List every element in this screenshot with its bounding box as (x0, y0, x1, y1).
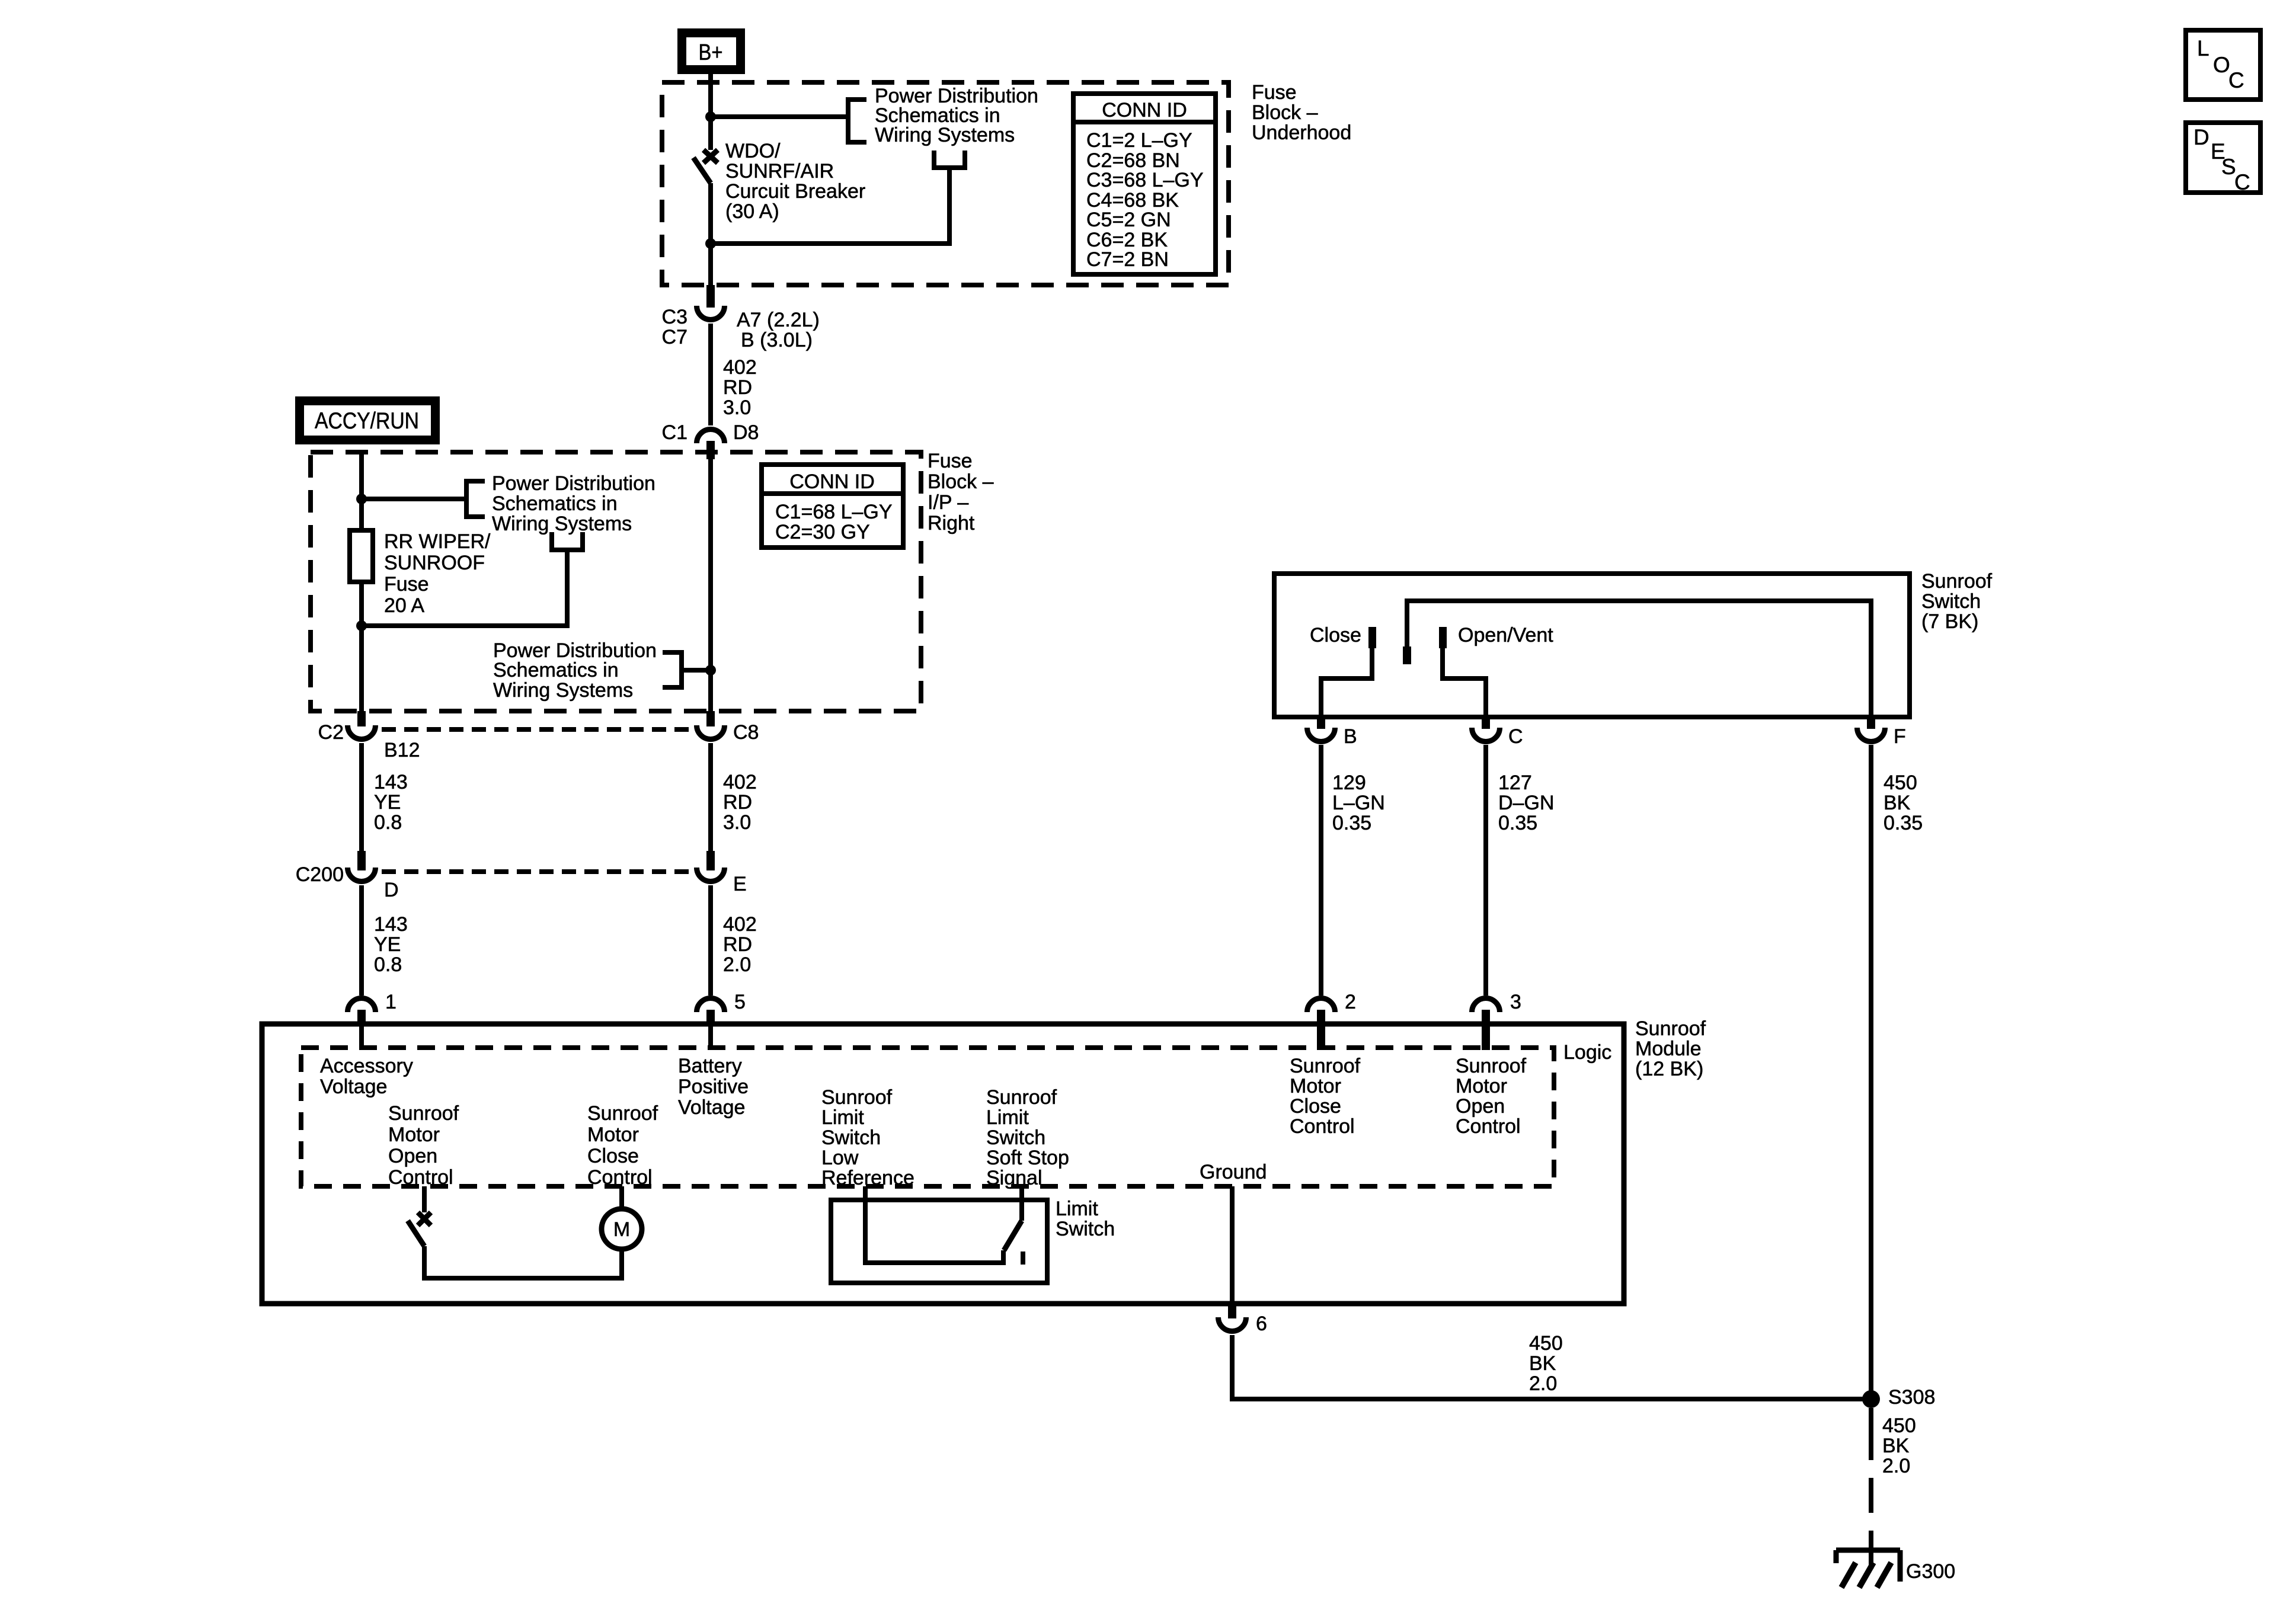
connector C2 pin stub (357, 711, 366, 726)
svg-text:20 A: 20 A (384, 594, 424, 617)
wire C down to pin 3 (1483, 745, 1488, 996)
label Power Distribution Schematics in Wiring Systems (top) (875, 85, 1038, 146)
svg-text:2.0: 2.0 (1882, 1455, 1910, 1477)
svg-text:B: B (1344, 725, 1357, 748)
connector pin 2 arc (1307, 998, 1335, 1012)
battery feed B+ terminal box (677, 28, 745, 74)
node junction on B+ wire (705, 111, 716, 122)
connector pin 1 arc (348, 998, 376, 1012)
svg-text:6: 6 (1256, 1313, 1267, 1335)
svg-text:C2=30 GY: C2=30 GY (775, 521, 870, 543)
svg-text:Close: Close (1290, 1095, 1341, 1118)
wire C2 down (359, 743, 364, 852)
limit switch blade (1004, 1221, 1022, 1250)
svg-text:RD: RD (723, 933, 752, 956)
svg-text:Open/Vent: Open/Vent (1458, 624, 1553, 646)
connector B stub (1317, 717, 1325, 729)
svg-text:D8: D8 (733, 421, 759, 444)
label Fuse Block Underhood (1252, 81, 1351, 144)
bracket under Wiring Systems text (934, 151, 965, 168)
label Fuse Block I/P Right (928, 450, 994, 534)
connector pin 6 stub (1228, 1304, 1236, 1318)
svg-text:Schematics in: Schematics in (492, 492, 618, 515)
wire bracket down to lower junction (362, 550, 567, 626)
connector C8 arc (697, 725, 725, 740)
connector pin 3 stub (1482, 1010, 1490, 1026)
sunroof motor open switch wire (422, 1186, 427, 1212)
svg-text:Signal: Signal (986, 1167, 1043, 1189)
svg-text:Sunroof: Sunroof (587, 1102, 658, 1125)
bracket under I/P upper reference text (552, 532, 583, 550)
svg-text:0.8: 0.8 (374, 953, 402, 976)
label Battery Positive Voltage (678, 1055, 749, 1119)
svg-text:I/P –: I/P – (928, 491, 968, 514)
svg-text:2.0: 2.0 (723, 953, 751, 976)
svg-text:Motor: Motor (388, 1124, 440, 1146)
svg-text:C1=68 L–GY: C1=68 L–GY (775, 501, 893, 523)
limit switch left wire (865, 1186, 1003, 1263)
logic dashed box (301, 1048, 1554, 1186)
wire E down (708, 885, 713, 996)
svg-text:402: 402 (723, 771, 757, 793)
connector C3/C7 arc (697, 306, 725, 320)
wire bracket down to junction (711, 168, 949, 244)
connector pin 6 arc (1219, 1317, 1246, 1331)
wire F down to S308 (1869, 745, 1873, 1399)
ground G300 symbol (1836, 1550, 1900, 1587)
svg-text:127: 127 (1498, 772, 1532, 794)
svg-text:RR WIPER/: RR WIPER/ (384, 530, 491, 553)
svg-text:Open: Open (1456, 1095, 1505, 1118)
svg-text:C5=2 GN: C5=2 GN (1086, 209, 1171, 231)
limit switch fixed contact tick (1021, 1251, 1025, 1265)
svg-text:Limit: Limit (1056, 1198, 1098, 1220)
svg-text:C8: C8 (733, 721, 759, 744)
svg-text:C: C (2234, 170, 2250, 194)
svg-text:Sunroof: Sunroof (1290, 1055, 1361, 1077)
svg-text:Underhood: Underhood (1252, 121, 1351, 144)
svg-text:Sunroof: Sunroof (1921, 570, 1993, 593)
svg-text:YE: YE (374, 791, 401, 814)
svg-text:(12 BK): (12 BK) (1635, 1058, 1703, 1080)
label Sunroof Motor Close Control (right) (1290, 1055, 1361, 1138)
svg-text:L–GN: L–GN (1332, 792, 1385, 814)
svg-text:Control: Control (1456, 1115, 1521, 1138)
wire label 129 L-GN 0.35 (1332, 772, 1385, 834)
Open/Vent fixed blade (1439, 627, 1447, 648)
svg-text:C2: C2 (318, 721, 344, 744)
svg-text:Fuse: Fuse (384, 573, 429, 596)
ACCY/RUN terminal box (295, 396, 440, 444)
connector B arc (1307, 728, 1335, 742)
connector F stub (1867, 717, 1875, 729)
connector C1/D8 arc (697, 430, 725, 444)
svg-text:Accessory: Accessory (320, 1055, 413, 1077)
svg-text:Close: Close (587, 1145, 639, 1167)
svg-text:(30 A): (30 A) (725, 200, 779, 223)
svg-text:Ground: Ground (1200, 1161, 1267, 1183)
svg-text:0.35: 0.35 (1498, 812, 1537, 834)
svg-text:Motor: Motor (1290, 1075, 1341, 1097)
svg-text:(7 BK): (7 BK) (1921, 610, 1978, 633)
svg-text:Low: Low (821, 1147, 859, 1169)
wire S308 down solid (1869, 1408, 1873, 1460)
svg-text:Control: Control (587, 1166, 653, 1189)
wire switch to motor (424, 1246, 622, 1278)
svg-text:Positive: Positive (678, 1076, 749, 1098)
svg-text:C1: C1 (662, 421, 687, 444)
wire label 143 YE 0.8 (second) (374, 913, 408, 976)
connector C3/C7 pin stub (706, 285, 715, 308)
Fuse Block I/P dashed box (311, 452, 921, 711)
svg-text:Module: Module (1635, 1038, 1702, 1060)
label Power Distribution Schematics in Wiring Systems (I/P lower) (493, 639, 657, 702)
wire B+ down to breaker (708, 74, 713, 150)
svg-text:L: L (2197, 36, 2209, 60)
svg-text:Wiring Systems: Wiring Systems (875, 124, 1015, 146)
dashed connector line C2 to C8 (382, 727, 692, 732)
svg-text:BK: BK (1529, 1352, 1556, 1375)
svg-text:Sunroof: Sunroof (1456, 1055, 1527, 1077)
label Sunroof Switch (7 BK) (1921, 570, 1993, 633)
wire pin2 into logic (1317, 1025, 1325, 1050)
svg-text:CONN ID: CONN ID (1102, 99, 1187, 121)
label Accessory Voltage (320, 1055, 413, 1098)
svg-text:C200: C200 (296, 863, 344, 886)
splice S308 (1862, 1390, 1880, 1408)
svg-text:C: C (2228, 68, 2244, 92)
Fuse Block Underhood dashed box (662, 82, 1229, 285)
svg-text:Voltage: Voltage (678, 1096, 745, 1119)
limit switch right wire (1019, 1186, 1024, 1221)
svg-text:Sunroof: Sunroof (986, 1086, 1057, 1109)
svg-text:C1=2 L–GY: C1=2 L–GY (1086, 129, 1192, 152)
svg-text:Switch: Switch (1056, 1218, 1115, 1240)
connector F arc (1857, 728, 1885, 742)
svg-text:Block –: Block – (1252, 101, 1318, 124)
wire Close to B (1321, 647, 1372, 717)
connector pin 5 arc (697, 998, 725, 1012)
svg-text:S308: S308 (1888, 1386, 1935, 1409)
wire Open/Vent to C (1443, 647, 1486, 717)
svg-text:Power Distribution: Power Distribution (492, 472, 655, 495)
wire label 143 YE 0.8 (374, 771, 408, 834)
limit switch box (831, 1200, 1047, 1283)
connector pin 1 stub (357, 1010, 366, 1026)
wire dashed segment 2 (1869, 1531, 1873, 1569)
svg-text:Block –: Block – (928, 470, 994, 493)
connector pin 2 stub (1317, 1010, 1325, 1026)
wire C8 down (708, 743, 713, 852)
svg-text:Motor: Motor (587, 1124, 639, 1146)
svg-text:RD: RD (723, 376, 752, 399)
svg-text:ACCY/RUN: ACCY/RUN (315, 408, 419, 434)
CONN ID table (underhood) (1073, 94, 1216, 274)
node junction main wire (705, 665, 716, 676)
label Sunroof Limit Switch Low Reference (821, 1086, 914, 1189)
svg-text:3.0: 3.0 (723, 396, 751, 419)
svg-text:Motor: Motor (1456, 1075, 1507, 1097)
svg-text:Sunroof: Sunroof (1635, 1017, 1706, 1040)
wire I/P top to fuse (359, 452, 364, 530)
wire bracket to main wire (682, 668, 711, 673)
connector pin 3 arc (1472, 998, 1500, 1012)
svg-text:SUNROOF: SUNROOF (384, 552, 485, 574)
CONN ID table (I/P) (762, 465, 903, 548)
wire C200 down (359, 885, 364, 996)
label A7 (2.2L) B (3.0L) (737, 309, 820, 351)
wire junction to bracket (362, 497, 466, 501)
node junction below fuse (356, 620, 367, 631)
svg-text:0.35: 0.35 (1884, 812, 1923, 834)
label Power Distribution Schematics in Wiring Systems (I/P upper) (492, 472, 655, 535)
svg-text:3: 3 (1510, 991, 1521, 1013)
connector E pin stub (706, 851, 715, 870)
svg-text:CONN ID: CONN ID (789, 470, 875, 493)
wire C3 to C1 (708, 324, 713, 425)
svg-text:S: S (2221, 155, 2236, 179)
wire motor up to logic (619, 1186, 624, 1209)
svg-text:C: C (1508, 725, 1523, 748)
wire label 127 D-GN 0.35 (1498, 772, 1554, 834)
svg-text:Battery: Battery (678, 1055, 742, 1077)
connector E arc (697, 868, 725, 882)
svg-text:Limit: Limit (986, 1106, 1029, 1129)
wire B down to pin 2 (1319, 745, 1323, 996)
dashed connector line C200 to E (382, 869, 692, 874)
svg-text:402: 402 (723, 356, 757, 379)
svg-text:D: D (384, 879, 399, 901)
svg-text:E: E (733, 873, 747, 895)
Close fixed blade (1368, 627, 1376, 648)
wire breaker down (708, 183, 713, 285)
svg-text:G300: G300 (1906, 1560, 1955, 1583)
svg-text:Sunroof: Sunroof (821, 1086, 893, 1109)
svg-text:Fuse: Fuse (928, 450, 973, 472)
wire label 402 RD 2.0 (723, 913, 757, 976)
svg-text:B12: B12 (384, 739, 420, 761)
svg-text:Fuse: Fuse (1252, 81, 1297, 104)
svg-text:B (3.0L): B (3.0L) (741, 329, 813, 351)
label Sunroof Motor Open Control (left) (388, 1102, 459, 1189)
label WDO/SUNRF/AIR Curcuit Breaker (30 A) (725, 140, 865, 223)
svg-text:1: 1 (385, 991, 396, 1013)
svg-text:143: 143 (374, 771, 408, 793)
svg-text:M: M (613, 1218, 630, 1241)
svg-text:BK: BK (1884, 792, 1911, 814)
svg-text:BK: BK (1882, 1435, 1910, 1457)
svg-text:B+: B+ (699, 40, 723, 65)
wire pin5 into logic (708, 1026, 713, 1048)
svg-text:Wiring Systems: Wiring Systems (492, 513, 632, 535)
svg-text:Sunroof: Sunroof (388, 1102, 459, 1125)
LOC reference box (2186, 30, 2260, 100)
svg-text:5: 5 (734, 991, 746, 1013)
connector C200 pin stub (357, 851, 366, 870)
connector C2 arc (348, 725, 376, 740)
svg-text:WDO/: WDO/ (725, 140, 781, 162)
wire fuse to junction (359, 582, 364, 711)
svg-text:A7 (2.2L): A7 (2.2L) (737, 309, 820, 331)
wire ground to pin 6 (1230, 1186, 1235, 1304)
svg-text:2.0: 2.0 (1529, 1372, 1557, 1395)
svg-text:0.35: 0.35 (1332, 812, 1371, 834)
wire label 450 BK 2.0 (horizontal run) (1529, 1332, 1563, 1395)
switch pole blade (1403, 646, 1411, 664)
svg-text:O: O (2213, 53, 2230, 77)
svg-text:0.8: 0.8 (374, 811, 402, 834)
wire pin3 into logic (1482, 1025, 1490, 1050)
wire dashed segment 1 (1869, 1478, 1873, 1513)
svg-text:3.0: 3.0 (723, 811, 751, 834)
node junction above fuse (356, 494, 367, 504)
svg-text:Soft Stop: Soft Stop (986, 1147, 1069, 1169)
switch common wire (1407, 601, 1871, 717)
connector C1/D8 pin stub (706, 441, 715, 459)
svg-text:450: 450 (1882, 1414, 1916, 1437)
label C3 C7 (662, 306, 687, 348)
label Limit Switch (1056, 1198, 1115, 1240)
svg-text:Close: Close (1310, 624, 1361, 646)
svg-text:SUNRF/AIR: SUNRF/AIR (725, 160, 834, 183)
svg-text:RD: RD (723, 791, 752, 814)
Sunroof Switch box (1274, 574, 1910, 717)
svg-text:Schematics in: Schematics in (493, 659, 619, 681)
wire pin1 into logic (359, 1026, 364, 1048)
label Sunroof Motor Close Control (left) (587, 1102, 658, 1189)
svg-text:D: D (2193, 125, 2209, 149)
wire label 402 RD 3.0 (723, 356, 757, 419)
svg-text:402: 402 (723, 913, 757, 936)
label Sunroof Motor Open Control (right) (1456, 1055, 1527, 1138)
label RR WIPER/SUNROOF Fuse 20 A (384, 530, 491, 617)
svg-text:Control: Control (1290, 1115, 1355, 1138)
connector pin 5 stub (706, 1010, 715, 1026)
svg-text:C7=2 BN: C7=2 BN (1086, 248, 1169, 271)
svg-text:C3: C3 (662, 306, 687, 328)
wire label 450 BK 2.0 (below S308) (1882, 1414, 1916, 1477)
svg-text:F: F (1894, 725, 1906, 748)
Sunroof Module box (262, 1024, 1624, 1304)
connector C stub (1482, 717, 1490, 729)
svg-text:129: 129 (1332, 772, 1366, 794)
svg-text:Open: Open (388, 1145, 437, 1167)
svg-text:Switch: Switch (1921, 590, 1981, 613)
main wire through I/P box (708, 459, 713, 711)
svg-text:450: 450 (1529, 1332, 1563, 1355)
svg-text:2: 2 (1345, 991, 1356, 1013)
svg-text:Control: Control (388, 1166, 453, 1189)
label Sunroof Module (12 BK) (1635, 1017, 1706, 1080)
bracket to power distribution reference (848, 100, 866, 142)
motor M circle (602, 1209, 642, 1249)
bracket to power distribution reference (I/P) (466, 481, 485, 517)
wire junction to bracket (711, 114, 848, 119)
svg-text:Switch: Switch (986, 1126, 1045, 1149)
circuit breaker WDO/SUNRF/AIR contact X (703, 150, 718, 163)
switch blade (408, 1221, 424, 1246)
svg-text:Logic: Logic (1563, 1041, 1611, 1064)
svg-text:Right: Right (928, 512, 975, 534)
svg-text:Switch: Switch (821, 1126, 881, 1149)
svg-text:Wiring Systems: Wiring Systems (493, 679, 633, 702)
node junction below breaker (705, 238, 716, 249)
connector C8 pin stub (706, 711, 715, 726)
svg-text:C3=68 L–GY: C3=68 L–GY (1086, 169, 1204, 191)
DESC reference box (2186, 123, 2260, 194)
svg-text:YE: YE (374, 933, 401, 956)
svg-text:Curcuit Breaker: Curcuit Breaker (725, 180, 865, 203)
svg-text:C7: C7 (662, 326, 687, 348)
svg-text:450: 450 (1884, 772, 1917, 794)
wire label 402 RD 3.0 (second) (723, 771, 757, 834)
connector C200 arc (348, 868, 376, 882)
wire label 450 BK 0.35 (1884, 772, 1923, 834)
switch contact X (418, 1212, 431, 1225)
wire pin 6 to S308 (1232, 1335, 1871, 1399)
fuse RR WIPER/SUNROOF (350, 530, 373, 582)
svg-text:Limit: Limit (821, 1106, 864, 1129)
connector C arc (1472, 728, 1500, 742)
circuit breaker blade (693, 158, 711, 183)
label Sunroof Limit Switch Soft Stop Signal (986, 1086, 1069, 1189)
svg-text:Reference: Reference (821, 1167, 914, 1189)
svg-text:D–GN: D–GN (1498, 792, 1554, 814)
svg-text:143: 143 (374, 913, 408, 936)
bracket right of I/P lower reference text (663, 652, 682, 687)
svg-text:Voltage: Voltage (320, 1076, 387, 1098)
